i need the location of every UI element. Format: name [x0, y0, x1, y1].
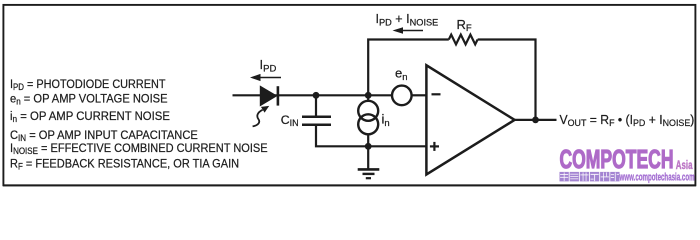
- voltage noise source en circle: [392, 86, 412, 106]
- wire in source leads: [367, 95, 369, 101]
- wire en circle to op-amp: [412, 94, 427, 96]
- node dot in bottom: [365, 143, 372, 150]
- arrow feedback current direction: [400, 30, 423, 32]
- photodiode light squiggle arrow: [253, 110, 263, 127]
- op-amp minus sign: [432, 93, 441, 95]
- current noise source in (two overlapping circles): [358, 101, 378, 121]
- op-amp U1 triangle: [426, 65, 514, 174]
- svg-text:IPD = PHOTODIODE CURRENT: IPD = PHOTODIODE CURRENT: [10, 77, 166, 92]
- photodiode D1 triangle: [260, 86, 276, 105]
- wire feedback loop left and top: [368, 40, 449, 96]
- svg-text:www.compotechasia.com: www.compotechasia.com: [619, 171, 695, 183]
- node dot in top: [365, 92, 372, 99]
- logo url www.compotechasia.com: [619, 171, 695, 183]
- wire op-amp output: [514, 119, 557, 121]
- svg-text:RF = FEEDBACK RESISTANCE, OR T: RF = FEEDBACK RESISTANCE, OR TIA GAIN: [10, 157, 239, 172]
- svg-text:COMPOTECH: COMPOTECH: [560, 144, 674, 173]
- legend text block: [10, 77, 268, 171]
- arrow IPD direction: [258, 77, 281, 79]
- photodiode cathode bar: [277, 86, 280, 105]
- capacitor CIN plates: [302, 115, 331, 118]
- resistor RF zigzag: [449, 35, 478, 45]
- logo Asia: [676, 159, 693, 172]
- wire CIN top lead: [315, 95, 317, 116]
- wire input to inverting node: [233, 94, 393, 96]
- ground: [358, 146, 380, 178]
- logo COMPOTECH: [560, 144, 674, 173]
- svg-text:en = OP AMP VOLTAGE NOISE: en = OP AMP VOLTAGE NOISE: [10, 92, 168, 107]
- border frame: [3, 5, 695, 185]
- wire feedback top right and right drop: [478, 40, 536, 120]
- node dot output: [532, 117, 539, 124]
- node dot CIN top: [313, 92, 320, 99]
- wire bottom rail CIN to op-amp plus: [316, 125, 427, 146]
- op-amp plus sign: [430, 145, 439, 147]
- logo kanji 智慧電子設計 (stylized glyph blocks): [560, 172, 620, 182]
- svg-text:in = OP AMP CURRENT NOISE: in = OP AMP CURRENT NOISE: [10, 108, 170, 124]
- svg-text:INOISE = EFFECTIVE COMBINED CU: INOISE = EFFECTIVE COMBINED CURRENT NOIS…: [10, 141, 268, 156]
